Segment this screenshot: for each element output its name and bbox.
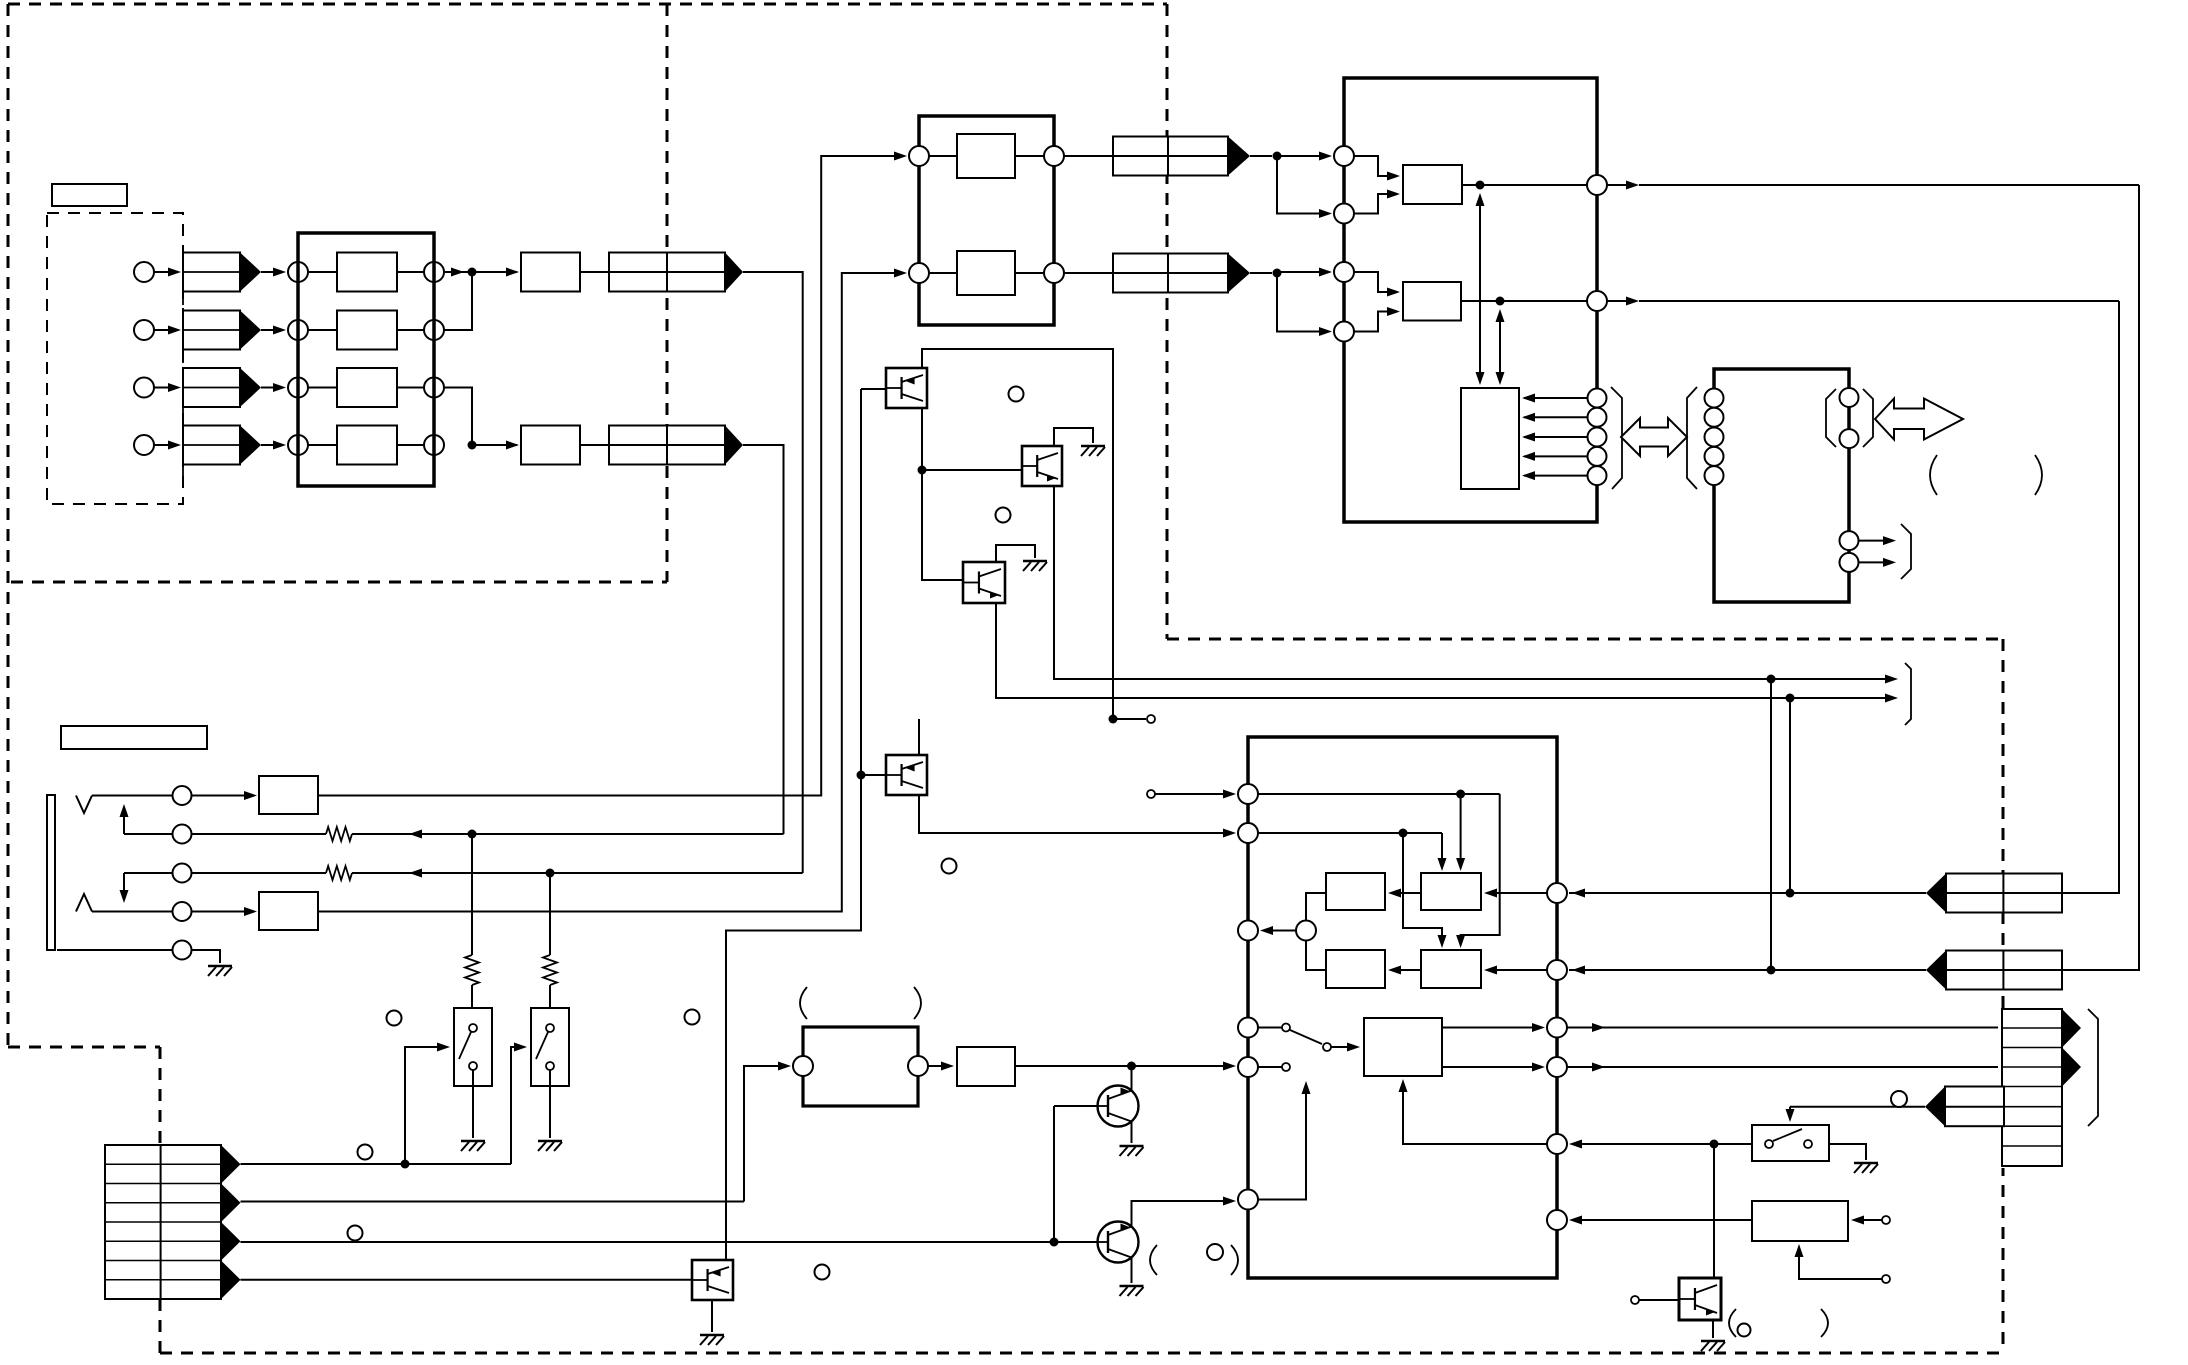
system connector CN1 bbox=[105, 1145, 221, 1299]
wire block A3 to output node bbox=[397, 387, 424, 389]
label box L1 bbox=[52, 184, 127, 206]
paren left Q6 label bbox=[1150, 1245, 1157, 1275]
pin U3-bus4 bbox=[1588, 447, 1607, 466]
cable W6 bbox=[1946, 951, 2062, 990]
bus double arrow bbox=[1621, 418, 1687, 456]
pin U3-3 bbox=[1334, 262, 1354, 282]
wire N10 to pin U3-out2 bbox=[1500, 300, 1587, 302]
wire pole to mode block bbox=[1331, 1046, 1357, 1048]
wire SW1 to ground bbox=[472, 1070, 474, 1138]
wire row C bbox=[241, 1241, 1098, 1243]
wire P5 to ground bbox=[191, 950, 220, 963]
wire N13 down to play line bbox=[1770, 679, 1772, 970]
wire U5-s2 out bbox=[1859, 561, 1893, 563]
dashed main board outline bottom edge bbox=[160, 1352, 2003, 1355]
block HP1 bbox=[259, 776, 318, 814]
node N16 bbox=[1399, 829, 1408, 838]
wire W3 to node N7 bbox=[1250, 155, 1272, 157]
remote switch SW3 bbox=[1752, 1125, 1829, 1161]
transistor Q7 bbox=[692, 1260, 733, 1300]
muting transistor Q6 bbox=[1098, 1222, 1139, 1263]
wire S3 to block bbox=[308, 387, 337, 389]
wire block A1 to output node bbox=[397, 271, 424, 273]
wire HP2 to mid box pin (long) bbox=[318, 273, 904, 912]
ground Q6 bbox=[1120, 1285, 1144, 1287]
jack tip contact bbox=[76, 796, 92, 814]
sum node SC bbox=[1296, 921, 1316, 941]
level control VR4 bbox=[183, 426, 240, 465]
wire SB out to U6-R6 bbox=[1572, 1219, 1752, 1221]
wire bus3 to logic bbox=[1524, 436, 1587, 438]
wire Q1 base net bbox=[861, 388, 886, 390]
cable W4 bbox=[1113, 254, 1228, 293]
ground SW1 bbox=[461, 1140, 485, 1142]
wire U3-2 to amp RA1 bbox=[1354, 194, 1397, 214]
test point TP1 bbox=[1147, 715, 1155, 723]
pin U6-L5 bbox=[1238, 1057, 1258, 1077]
wire U7-out to block HP3 bbox=[928, 1065, 951, 1067]
node N15 bbox=[1456, 790, 1465, 799]
wire HP3 to U6-L5 bbox=[1015, 1065, 1233, 1067]
wire EA to EB bbox=[1391, 892, 1421, 894]
wire U6-L1 internal bbox=[1258, 793, 1500, 795]
wire U2 in2 bbox=[929, 272, 957, 274]
level control VR1 bbox=[183, 253, 240, 292]
wire U2out2 to cable W4 bbox=[1064, 272, 1113, 274]
wire crossover 1 bbox=[1461, 794, 1500, 945]
wire EQ2 out bbox=[1015, 272, 1044, 274]
node Q4 base bbox=[857, 771, 866, 780]
wire N7 branch to IC pin2 bbox=[1277, 156, 1329, 214]
dashed input group box bbox=[47, 213, 183, 504]
connector triangle C bbox=[221, 1222, 241, 1261]
wire U6-R3 to cable stack bbox=[1567, 1027, 2004, 1029]
wire N7 to IC pin1 bbox=[1277, 155, 1329, 157]
pin U2-out2 bbox=[1044, 263, 1064, 283]
node N20 bbox=[1767, 966, 1776, 975]
mechanism box U5 (bold box) bbox=[1714, 369, 1849, 602]
wire SW3 to U6-R5 bbox=[1572, 1143, 1752, 1145]
wire Q8 emitter bbox=[1712, 1320, 1714, 1338]
pin U3-4 bbox=[1334, 322, 1354, 342]
wire crossover 2 bbox=[1403, 833, 1442, 945]
output node O4 bbox=[424, 435, 444, 455]
test point TP5 bbox=[1882, 1275, 1890, 1283]
bracket right of U3 bus bbox=[1611, 387, 1622, 489]
amp block RA1 bbox=[1403, 165, 1462, 204]
cable W3 bbox=[1113, 137, 1228, 176]
record/play IC U3 (bold box) bbox=[1344, 78, 1597, 522]
wire Q4 emitter to U6 pin2 bbox=[919, 795, 1233, 833]
wire N1 to filter F1 bbox=[472, 271, 517, 273]
wire U6-R2 play line bbox=[1569, 969, 1926, 971]
label box L2 bbox=[61, 726, 207, 749]
block EQ2 bbox=[957, 251, 1015, 295]
connector double arrow bbox=[1875, 399, 1963, 440]
wire U3-out2 right bbox=[1607, 300, 1636, 302]
cable W5 bbox=[1946, 874, 2062, 913]
wire HP1 to DIN pin (long) bbox=[318, 156, 904, 796]
connector bracket right bbox=[1863, 389, 1873, 447]
pin U5-bus5 bbox=[1705, 466, 1724, 485]
node N12 bbox=[918, 466, 927, 475]
wire Q1 collector to test point bbox=[922, 349, 1113, 719]
test point circle E bbox=[387, 1011, 402, 1026]
wire Q5-Q6 base link bbox=[1053, 1106, 1055, 1242]
wire W6 right bbox=[2062, 969, 2139, 971]
paren left label bbox=[1930, 455, 1937, 495]
node N18 bbox=[1050, 1238, 1059, 1247]
block A1 bbox=[337, 253, 397, 292]
mode block ME bbox=[1364, 1018, 1442, 1076]
wire N6 down with resistor R4 bbox=[549, 873, 551, 955]
wire ME out2 bbox=[1442, 1066, 1542, 1068]
wire P4 to DIN pin (long) bbox=[191, 911, 254, 913]
test point circle G bbox=[358, 1145, 373, 1160]
record EQ box U2 (bold box) bbox=[919, 116, 1054, 325]
node N9 bbox=[1476, 181, 1485, 190]
switch contact a bbox=[1282, 1024, 1290, 1032]
pin U5-c1 bbox=[1840, 388, 1859, 407]
node N8 bbox=[1273, 269, 1282, 278]
wire row B bbox=[241, 1201, 745, 1203]
transistor Q2 bbox=[1022, 446, 1062, 486]
node N17 bbox=[1127, 1062, 1136, 1071]
wire EC to ED bbox=[1391, 969, 1421, 971]
test point circle B bbox=[996, 508, 1011, 523]
cable W2 bbox=[609, 426, 725, 465]
pin U6-R5 bbox=[1547, 1134, 1567, 1154]
pin U5-bus1 bbox=[1705, 389, 1724, 408]
dashed sub-board box right edge bbox=[666, 4, 669, 582]
amplifier block U1 (bold box) bbox=[298, 233, 434, 486]
contact arrow down bbox=[123, 873, 125, 900]
jack body bar bbox=[47, 795, 55, 950]
test point TP3 bbox=[1631, 1296, 1639, 1304]
node N5 bbox=[468, 830, 477, 839]
wire N5 to W2 via bbox=[472, 833, 784, 835]
speed control block SB bbox=[1752, 1201, 1848, 1241]
pin U3-bus1 bbox=[1588, 389, 1607, 408]
wire U3-3 to amp RA2 bbox=[1354, 272, 1397, 292]
bias line N9 to logic bbox=[1479, 196, 1481, 382]
wire block A2 to output node bbox=[397, 329, 424, 331]
eq block EA bbox=[1421, 873, 1481, 910]
node N6 bbox=[546, 869, 555, 878]
dashed main board outline top edge bbox=[8, 3, 1167, 6]
wire Q6 to ground bbox=[1131, 1257, 1133, 1283]
bracket U5 sense bbox=[1901, 524, 1911, 579]
wire N8 branch to IC pin4 bbox=[1277, 273, 1329, 332]
phones amp box U7 (bold box) bbox=[803, 1027, 918, 1106]
test point circle H bbox=[348, 1226, 363, 1241]
wire N5 down with resistor R3 bbox=[471, 834, 473, 955]
ground SW3 bbox=[1854, 1162, 1878, 1164]
pin U3-1 bbox=[1334, 146, 1354, 166]
pin U6-L1 bbox=[1238, 784, 1258, 804]
test point circle D bbox=[1207, 1244, 1223, 1260]
wire N12 to Q2 base bbox=[922, 469, 1022, 471]
wire row-B to U7-in bbox=[744, 1066, 788, 1202]
logic block U4 bbox=[1461, 388, 1519, 489]
wire U6-R5 to ME bottom bbox=[1403, 1082, 1547, 1144]
ground Q7 bbox=[700, 1334, 724, 1336]
wire TP5 to SB bottom bbox=[1799, 1247, 1882, 1279]
pin U6-L2 bbox=[1238, 823, 1258, 843]
wire RA2 out to node N10 bbox=[1461, 300, 1500, 302]
pin U7-out bbox=[908, 1056, 928, 1076]
dashed main board outline left notch vertical bbox=[159, 1047, 162, 1353]
test point TP2 bbox=[1147, 790, 1155, 798]
dashed sub-board box bottom edge bbox=[11, 581, 667, 584]
wire F2 to cable W2 bbox=[580, 444, 609, 446]
output node O3 bbox=[424, 378, 444, 398]
wire N17 to Q5 bbox=[1131, 1066, 1133, 1091]
block EQ1 bbox=[957, 134, 1015, 178]
pin U3-2 bbox=[1334, 204, 1354, 224]
test point circle F bbox=[685, 1010, 700, 1025]
test point circle A bbox=[1009, 387, 1024, 402]
wire Q2 emitter long bbox=[1054, 486, 1895, 679]
pin U6-R6 bbox=[1547, 1210, 1567, 1230]
wire W5 right bbox=[2062, 892, 2119, 894]
wire VR1 to summing node bbox=[261, 271, 283, 273]
wire VR4 to summing node bbox=[261, 444, 283, 446]
jack ring contact bbox=[76, 894, 92, 912]
jack terminal P2 bbox=[173, 825, 192, 844]
wire Q3 top to ground bbox=[996, 545, 1035, 562]
wire row A bbox=[241, 1163, 512, 1165]
transistor Q8 bbox=[1679, 1278, 1721, 1320]
mute switch SW2 bbox=[531, 1008, 569, 1086]
pin U6-L6 bbox=[1238, 1190, 1258, 1210]
level control VR3 bbox=[183, 368, 240, 407]
wire W2 to via bbox=[743, 445, 784, 834]
output node O1 bbox=[424, 262, 444, 282]
pin U6-L4 bbox=[1238, 1018, 1258, 1038]
wire TP2 to U6-L1 bbox=[1155, 793, 1233, 795]
wire row-A to SW1 control bbox=[405, 1047, 446, 1164]
eq block ED bbox=[1326, 950, 1385, 988]
pin U3-out2 bbox=[1587, 291, 1607, 311]
pin U5-s1 bbox=[1840, 531, 1859, 550]
record/play amp U6 (bold box) bbox=[1248, 737, 1557, 1278]
wire U3-4 to amp RA2 bbox=[1354, 312, 1397, 332]
wire Q4 collector bbox=[918, 719, 920, 755]
wire U6-L6 up bbox=[1258, 1084, 1306, 1200]
connector triangle D bbox=[221, 1261, 241, 1300]
wire EQ1 out bbox=[1015, 155, 1044, 157]
wire N8 to IC pin3 bbox=[1277, 271, 1329, 273]
ground Q5 bbox=[1120, 1145, 1144, 1147]
pin U5-c2 bbox=[1840, 429, 1859, 448]
wire S4 to block bbox=[308, 444, 337, 446]
wire F1 to cable W1 bbox=[580, 271, 609, 273]
wire row-A to SW2 control bbox=[511, 1047, 523, 1164]
summing node S4 bbox=[288, 435, 308, 455]
wire N15 down to eq A bbox=[1460, 794, 1462, 868]
input jack J4 bbox=[134, 435, 154, 455]
pin U5-bus3 bbox=[1705, 428, 1724, 447]
wire S2 to block bbox=[308, 329, 337, 331]
wire U2 in1 bbox=[929, 155, 957, 157]
wire W8 to remote switch bbox=[1790, 1106, 1925, 1108]
wire S1 to block bbox=[308, 271, 337, 273]
paren right Q8 label bbox=[1821, 1309, 1828, 1337]
wire SW3 to ground bbox=[1829, 1144, 1866, 1160]
test point circle C bbox=[942, 859, 957, 874]
wire Q5 to ground bbox=[1131, 1121, 1133, 1143]
wire O2 up to node N1 bbox=[444, 276, 472, 330]
wire block A4 to output node bbox=[397, 444, 424, 446]
stack triangle Q bbox=[2062, 1048, 2081, 1087]
paren right phones bbox=[914, 987, 921, 1019]
block A4 bbox=[337, 426, 397, 465]
output node O2 bbox=[424, 320, 444, 340]
paren right Q6 label bbox=[1231, 1245, 1238, 1275]
wire W4 to node N8 bbox=[1250, 272, 1272, 274]
level control VR2 bbox=[183, 311, 240, 350]
switch lever bbox=[1290, 1030, 1322, 1044]
wire U5-s1 out bbox=[1859, 540, 1893, 542]
pin U2-out1 bbox=[1044, 146, 1064, 166]
ground Q8 bbox=[1701, 1340, 1725, 1342]
stack triangle P bbox=[2062, 1009, 2081, 1048]
contact arrow up bbox=[123, 807, 125, 834]
ground SW2 bbox=[538, 1140, 562, 1142]
ground Q3 bbox=[1023, 560, 1047, 562]
wire SW2 to ground bbox=[549, 1070, 551, 1138]
ground Q2 bbox=[1081, 445, 1105, 447]
summing node S1 bbox=[288, 262, 308, 282]
wire Q3 emitter long bbox=[996, 603, 1895, 698]
wire TP4 to SB bbox=[1854, 1219, 1882, 1221]
input jack J3 bbox=[134, 378, 154, 398]
paren left phones bbox=[800, 987, 807, 1019]
pin U6-L3 bbox=[1238, 921, 1258, 941]
summing node S2 bbox=[288, 320, 308, 340]
wire O3 down to node N4 bbox=[444, 388, 472, 442]
pin U2-in1 bbox=[909, 146, 929, 166]
wire L2 corner into eq A bbox=[1441, 833, 1443, 868]
filter F2 bbox=[521, 426, 580, 465]
test point circle J bbox=[1891, 1091, 1907, 1107]
pin U3-bus3 bbox=[1588, 428, 1607, 447]
wire bus4 to logic bbox=[1524, 455, 1587, 457]
wire VR3 to summing node bbox=[261, 387, 283, 389]
bracket control out bbox=[1905, 663, 1911, 725]
paren right label bbox=[2035, 455, 2042, 495]
node N1 bbox=[468, 268, 477, 277]
wire bus2 to logic bbox=[1524, 416, 1587, 418]
dashed main board outline right segment upper bbox=[1166, 4, 1169, 639]
wire Q6 collector to U6-L6 bbox=[1132, 1201, 1234, 1227]
transistor Q3 bbox=[963, 562, 1005, 603]
amp block RA2 bbox=[1403, 282, 1461, 321]
cable W8 left part bbox=[1945, 1087, 2004, 1127]
test point circle K bbox=[1738, 1324, 1751, 1337]
wire U3-1 to amp RA1 bbox=[1354, 156, 1397, 176]
pin U3-bus2 bbox=[1588, 408, 1607, 427]
pin U7-in bbox=[793, 1056, 813, 1076]
pin U5-bus2 bbox=[1705, 408, 1724, 427]
block A3 bbox=[337, 368, 397, 407]
switch pole bbox=[1323, 1043, 1331, 1051]
wire Q2 top to ground bbox=[1054, 428, 1093, 446]
wire N11 to test point bbox=[1113, 718, 1146, 720]
eq block EC bbox=[1421, 950, 1481, 988]
pin U5-s2 bbox=[1840, 553, 1859, 572]
wire ED to sum bbox=[1306, 941, 1326, 971]
jack terminal P4 bbox=[173, 902, 192, 921]
transistor Q1 bbox=[886, 368, 927, 408]
wire Q4 base bbox=[861, 774, 886, 776]
dashed main board outline right segment lower bbox=[2002, 639, 2005, 1353]
jack terminal P1 bbox=[173, 786, 192, 805]
bias line N10 to logic bbox=[1499, 312, 1501, 382]
summing node S3 bbox=[288, 378, 308, 398]
eq block EB bbox=[1326, 873, 1385, 910]
node N19 bbox=[1786, 889, 1795, 898]
switch contact b bbox=[1282, 1063, 1290, 1071]
wire RA1 out to node N9 bbox=[1462, 184, 1480, 186]
wire feedback right vertical B bbox=[2062, 301, 2119, 893]
wire U6-R1 to EA bbox=[1487, 892, 1547, 894]
wire P2 with resistor R1 bbox=[191, 833, 326, 835]
mute switch SW1 bbox=[454, 1008, 492, 1086]
node N10 bbox=[1496, 297, 1505, 306]
cable W1 bbox=[609, 253, 725, 292]
node N21 bbox=[1710, 1140, 1719, 1149]
node N14 bbox=[1786, 694, 1795, 703]
wire U3-out1 right bbox=[1607, 184, 1636, 186]
node N4 bbox=[468, 441, 477, 450]
dashed main board outline left notch horizontal bbox=[8, 1046, 160, 1049]
pin U6-R4 bbox=[1547, 1057, 1567, 1077]
block A2 bbox=[337, 311, 397, 350]
jack terminal P3 bbox=[173, 864, 192, 883]
wire U6-R1 play line bbox=[1569, 892, 1926, 894]
node N7 bbox=[1273, 152, 1282, 161]
test point circle I bbox=[815, 1265, 830, 1280]
node N11 bbox=[1109, 715, 1118, 724]
dashed main board outline mid horizontal bbox=[1167, 638, 2003, 641]
connector triangle B bbox=[221, 1184, 241, 1223]
wire N4 to filter F2 bbox=[472, 444, 517, 446]
wire sum to U6-L3 bbox=[1263, 930, 1296, 932]
wire feedback right vertical A bbox=[2062, 185, 2139, 970]
wire N21 to Q8 bbox=[1713, 1144, 1715, 1278]
wire W1 to via bbox=[743, 272, 803, 873]
block HP3 bbox=[957, 1047, 1015, 1086]
wire EB to sum bbox=[1306, 893, 1326, 921]
test point TP4 bbox=[1882, 1216, 1890, 1224]
wire U6-L2 internal bbox=[1258, 832, 1442, 834]
bracket cable stack bbox=[2088, 1009, 2098, 1126]
muting transistor Q5 bbox=[1098, 1086, 1139, 1127]
ground jack sleeve bbox=[208, 965, 232, 967]
block HP2 bbox=[259, 892, 318, 930]
pin U2-in2 bbox=[909, 263, 929, 283]
wire U2out1 to cable W3 bbox=[1064, 155, 1113, 157]
pin U6-R1 bbox=[1547, 883, 1567, 903]
wire ME out1 bbox=[1442, 1027, 1542, 1029]
connector bracket left bbox=[1826, 389, 1836, 447]
pin U3-bus5 bbox=[1588, 466, 1607, 485]
wire O1 to node N1 bbox=[444, 271, 468, 273]
filter F1 bbox=[521, 253, 580, 292]
jack terminal P5 bbox=[173, 941, 192, 960]
